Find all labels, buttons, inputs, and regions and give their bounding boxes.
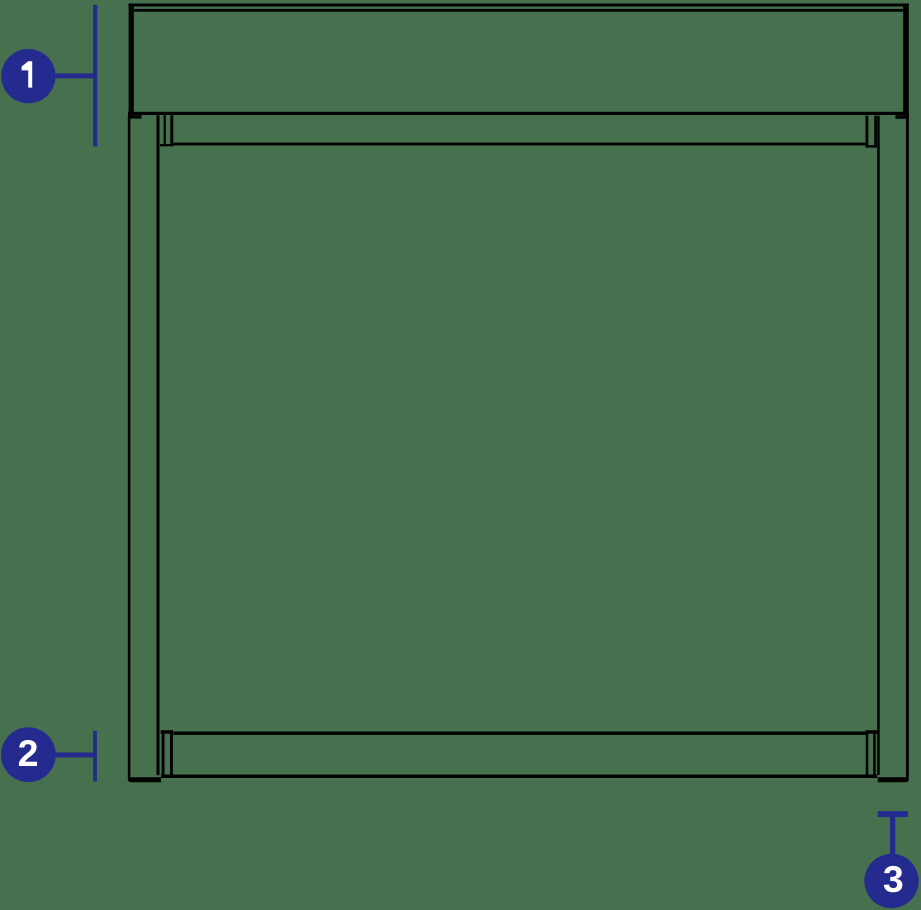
svg-text:3: 3 bbox=[883, 858, 904, 900]
svg-text:2: 2 bbox=[18, 732, 39, 774]
